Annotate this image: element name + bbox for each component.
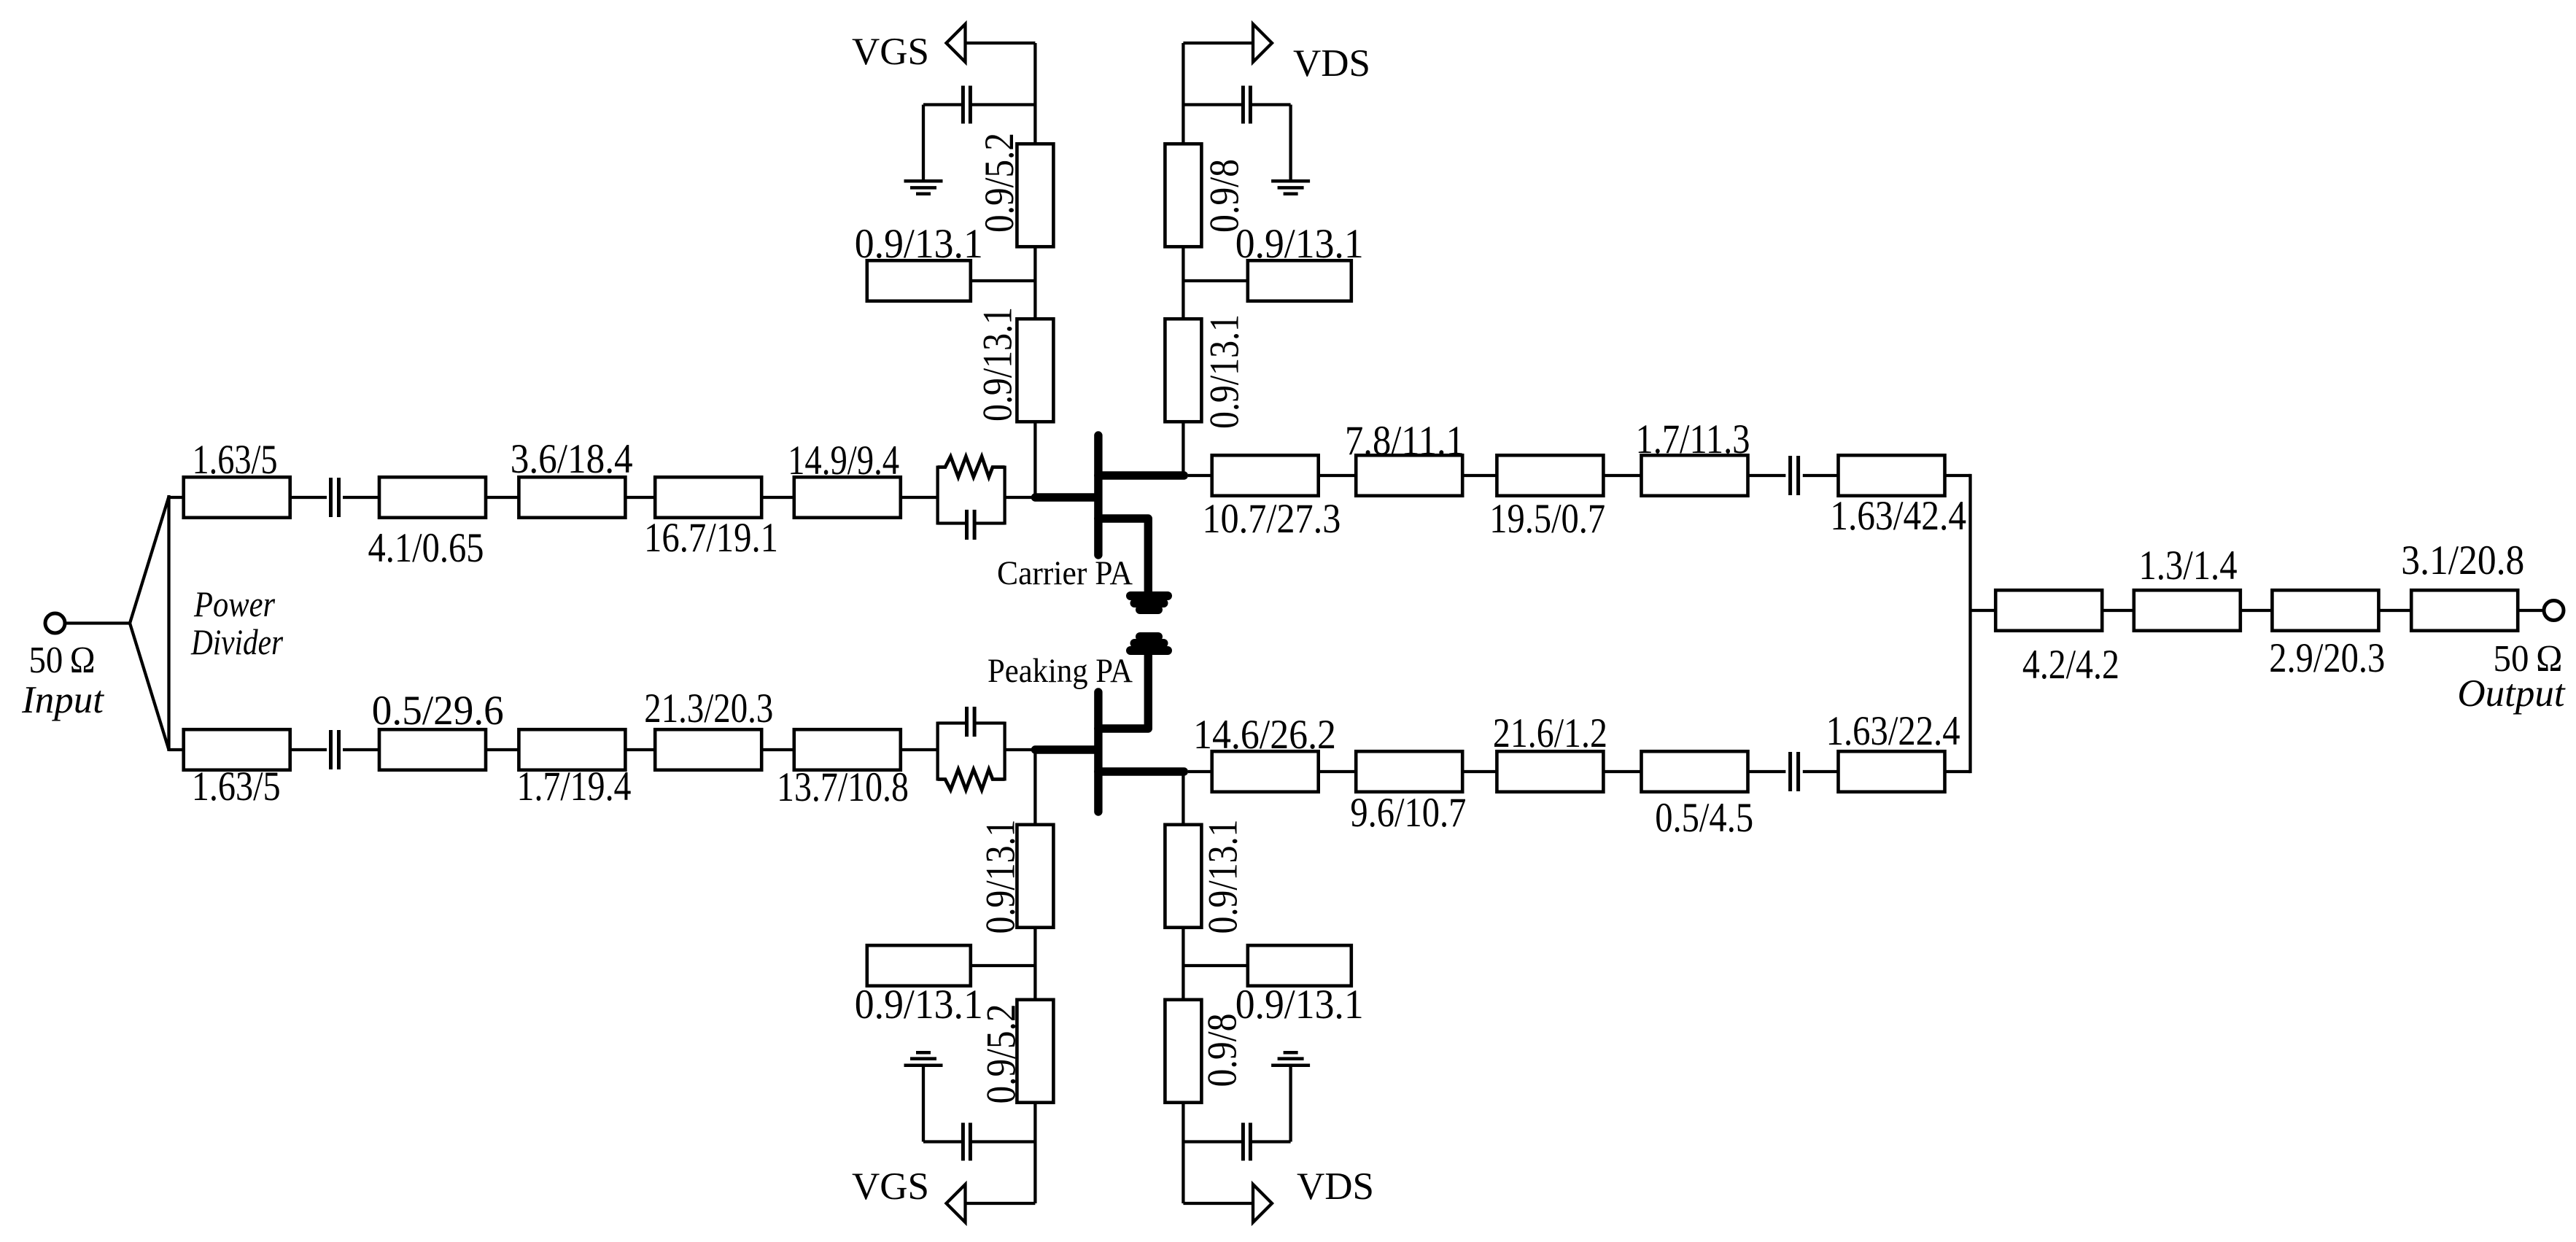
RC tank box left/right (carrier)	[938, 466, 1005, 525]
wire C10 to TL32	[1803, 770, 1839, 773]
transmission line TL23 10.7/27.3	[1212, 455, 1319, 496]
svg-text:0.5/4.5: 0.5/4.5	[1655, 795, 1753, 841]
wire VDS feed column (carrier drain bias)	[1183, 43, 1253, 476]
RC tank box left/right (peaking)	[938, 722, 1005, 781]
transistor Q1 source lead	[1098, 519, 1148, 591]
svg-text:0.9/13.1: 0.9/13.1	[975, 307, 1021, 422]
label 21.6/1.2	[1493, 710, 1607, 756]
transistor Q2 drain lead	[1098, 767, 1184, 775]
svg-text:0.5/29.6: 0.5/29.6	[372, 688, 504, 734]
label 4.2/4.2	[2022, 642, 2119, 688]
wire input to divider	[65, 621, 130, 624]
ground (peaking drain bias)	[1271, 1052, 1310, 1066]
label 0.9/13.1 below stub (peaking gate)	[855, 982, 983, 1028]
wire drain to TL28	[1188, 770, 1212, 773]
capacitor C9 (carrier output DC block)	[1791, 456, 1799, 495]
bold ground (carrier source)	[1130, 596, 1168, 610]
label 2.9/20.3	[2269, 635, 2385, 681]
wire C3 to TL7	[343, 748, 381, 751]
svg-text:Carrier PA: Carrier PA	[997, 554, 1133, 592]
svg-text:1.63/5: 1.63/5	[193, 437, 278, 483]
transmission line TL2 4.1/0.65	[379, 477, 486, 518]
wire TL8 to TL9	[625, 748, 655, 751]
svg-text:2.9/20.3: 2.9/20.3	[2269, 635, 2385, 681]
label Output	[2457, 672, 2566, 715]
label Divider	[190, 621, 283, 662]
transmission line TL8 1.7/19.4	[519, 729, 625, 770]
svg-text:1.63/5: 1.63/5	[192, 764, 281, 810]
transmission line TL28 14.6/26.2	[1212, 751, 1319, 792]
open stub TL12 0.9/13.1 (carrier gate)	[867, 260, 971, 301]
svg-text:3.1/20.8: 3.1/20.8	[2401, 537, 2524, 583]
label 0.5/29.6	[372, 688, 504, 734]
capacitor C3 (peaking input DC block)	[331, 730, 339, 769]
wire tank to gate (peaking)	[1005, 748, 1036, 751]
svg-text:13.7/10.8: 13.7/10.8	[777, 764, 909, 810]
label Peaking PA	[988, 652, 1133, 690]
transistor Q2 Peaking PA gate bar	[1035, 745, 1097, 753]
label 14.6/26.2	[1193, 712, 1336, 758]
port arrow VDS (carrier)	[1253, 24, 1272, 62]
svg-text:1.63/22.4: 1.63/22.4	[1826, 708, 1960, 754]
label VDS (peaking)	[1297, 1165, 1374, 1208]
wire VDS feed column (peaking drain bias)	[1183, 772, 1253, 1203]
label VGS (peaking)	[852, 1165, 929, 1208]
transmission line TL7 0.5/29.6	[379, 729, 486, 770]
capacitor C8 (peaking drain bypass)	[1183, 1067, 1290, 1161]
label 0.9/13.1 rotated (peaking gate)	[978, 820, 1024, 934]
port arrow VGS (carrier)	[947, 24, 966, 62]
svg-text:0.9/13.1: 0.9/13.1	[855, 982, 983, 1028]
ground (carrier drain bias)	[1271, 181, 1310, 193]
label 0.9/8 (peaking drain)	[1200, 1014, 1246, 1087]
wire divider to TL1	[169, 496, 185, 499]
label 13.7/10.8	[777, 764, 909, 810]
label 16.7/19.1	[644, 515, 778, 561]
label 1.3/1.4	[2139, 543, 2238, 589]
label 7.8/11.1	[1345, 418, 1464, 464]
svg-text:0.9/5.2: 0.9/5.2	[979, 1004, 1025, 1104]
node combiner vertical wire	[1968, 474, 1971, 773]
svg-text:50 Ω: 50 Ω	[29, 640, 96, 681]
label 50 Ohm output	[2494, 638, 2563, 680]
open stub TL18 0.9/13.1 (peaking gate)	[867, 945, 971, 986]
stub TL22 0.9/8 (peaking drain feed)	[1165, 1000, 1201, 1103]
bold ground (peaking source)	[1130, 637, 1168, 651]
wire TL31 to C10	[1748, 770, 1786, 773]
label 0.9/13.1 rotated (peaking drain)	[1200, 820, 1246, 934]
transmission line TL10 13.7/10.8	[794, 729, 901, 770]
stub TL13 0.9/13.1 (carrier gate feed lower)	[1017, 319, 1053, 422]
wire TL25 to TL26	[1603, 474, 1641, 477]
svg-text:VGS: VGS	[852, 31, 929, 73]
label 1.63/22.4	[1826, 708, 1960, 754]
wire divider to TL6	[169, 748, 185, 751]
wire TL34 to TL35	[2241, 609, 2273, 612]
label 0.9/5.2 (carrier gate)	[977, 133, 1023, 233]
wire VGS feed column (peaking gate bias)	[966, 750, 1036, 1203]
capacitor C6 (carrier drain bypass)	[1183, 86, 1290, 180]
label VGS (carrier)	[852, 31, 929, 73]
transmission line TL33 4.2/4.2	[1995, 590, 2102, 631]
svg-text:1.7/19.4: 1.7/19.4	[517, 764, 632, 810]
label 21.3/20.3	[644, 686, 773, 731]
transmission line TL25 19.5/0.7	[1497, 455, 1603, 496]
svg-text:16.7/19.1: 16.7/19.1	[644, 515, 778, 561]
transmission line TL4 16.7/19.1	[655, 477, 761, 518]
label 9.6/10.7	[1350, 790, 1466, 836]
label 1.63/5 (carrier)	[193, 437, 278, 483]
stub TL20 0.9/13.1 (peaking drain feed upper)	[1165, 825, 1201, 928]
svg-text:0.9/13.1: 0.9/13.1	[1235, 221, 1364, 267]
open stub TL21 0.9/13.1 (peaking drain)	[1248, 945, 1351, 986]
transistor Q1 Carrier PA gate bar	[1035, 493, 1097, 501]
capacitor C4 (peaking stab, top of tank)	[938, 707, 1005, 737]
wire TL9 to TL10	[761, 748, 794, 751]
stub TL17 0.9/13.1 (peaking gate feed upper)	[1017, 825, 1053, 928]
svg-text:0.9/13.1: 0.9/13.1	[1200, 820, 1246, 934]
transmission line TL5 14.9/9.4	[794, 477, 901, 518]
label 0.9/13.1 rotated (carrier drain)	[1202, 314, 1248, 429]
wire TL28 to TL29	[1319, 770, 1357, 773]
svg-text:1.7/11.3: 1.7/11.3	[1636, 416, 1750, 462]
label 4.1/0.65	[368, 525, 484, 571]
wire TL5 to RC tank (carrier)	[901, 496, 938, 499]
svg-text:19.5/0.7: 19.5/0.7	[1489, 496, 1605, 542]
transmission line TL27 1.63/42.4	[1839, 455, 1945, 496]
capacitor C5 (carrier gate bypass)	[923, 86, 1035, 180]
transmission line TL9 21.3/20.3	[655, 729, 761, 770]
label 14.9/9.4	[788, 438, 899, 484]
wire TL6 to C3	[290, 748, 327, 751]
transmission line TL6 1.63/5 (peaking input)	[184, 729, 290, 770]
transmission line TL24 7.8/11.1	[1356, 455, 1462, 496]
svg-text:14.9/9.4: 14.9/9.4	[788, 438, 899, 484]
capacitor C2 (carrier stab, bottom of tank)	[938, 510, 1005, 540]
label 10.7/27.3	[1202, 496, 1341, 542]
svg-text:10.7/27.3: 10.7/27.3	[1202, 496, 1341, 542]
transmission line TL1 1.63/5 (carrier input)	[184, 477, 290, 518]
label 1.63/42.4	[1830, 493, 1966, 539]
capacitor C10 (peaking output DC block)	[1791, 752, 1799, 791]
svg-text:1.63/42.4: 1.63/42.4	[1830, 493, 1966, 539]
transmission line TL3 3.6/18.4	[519, 477, 625, 518]
power divider	[130, 495, 169, 751]
open stub TL15 0.9/13.1 (carrier drain)	[1248, 260, 1351, 301]
transmission line TL34 1.3/1.4	[2134, 590, 2241, 631]
resistor R1 (carrier stab, top of tank)	[938, 457, 1005, 477]
wire stub junction (carrier drain)	[1183, 279, 1247, 282]
output port 50-ohm terminal	[2544, 601, 2564, 621]
svg-text:0.9/13.1: 0.9/13.1	[855, 221, 983, 267]
wire C1 to TL2	[343, 496, 381, 499]
transistor Q1 channel bar	[1094, 435, 1102, 555]
wire TL26 to C9	[1748, 474, 1786, 477]
svg-text:Output: Output	[2457, 672, 2566, 715]
svg-text:VDS: VDS	[1293, 42, 1370, 85]
svg-text:3.6/18.4: 3.6/18.4	[511, 436, 633, 482]
wire drain to TL23	[1188, 474, 1212, 477]
ground (carrier gate bias)	[904, 181, 943, 193]
svg-text:0.9/13.1: 0.9/13.1	[978, 820, 1024, 934]
wire TL10 to RC tank (peaking)	[901, 748, 938, 751]
wire TL1 to C1	[290, 496, 327, 499]
label Carrier PA	[997, 554, 1133, 592]
wire TL7 to TL8	[486, 748, 519, 751]
svg-text:0.9/13.1: 0.9/13.1	[1235, 982, 1364, 1028]
svg-text:9.6/10.7: 9.6/10.7	[1350, 790, 1466, 836]
wire TL24 to TL25	[1462, 474, 1497, 477]
transmission line TL32 1.63/22.4	[1839, 751, 1945, 792]
label 0.9/13.1 above stub (carrier gate)	[855, 221, 983, 267]
svg-text:21.3/20.3: 21.3/20.3	[644, 686, 773, 731]
transmission line TL30 21.6/1.2	[1497, 751, 1603, 792]
svg-text:VDS: VDS	[1297, 1165, 1374, 1208]
wire stub junction (peaking drain)	[1183, 964, 1247, 967]
transmission line TL36 3.1/20.8	[2411, 590, 2518, 631]
wire TL4 to TL5	[761, 496, 794, 499]
port arrow VDS (peaking)	[1253, 1184, 1272, 1222]
wire tank to gate (carrier)	[1005, 496, 1036, 499]
capacitor C7 (peaking gate bypass)	[923, 1067, 1035, 1161]
port arrow VGS (peaking)	[947, 1184, 966, 1222]
svg-text:0.9/8: 0.9/8	[1200, 1014, 1246, 1087]
svg-text:4.1/0.65: 4.1/0.65	[368, 525, 484, 571]
label 0.9/8 (carrier drain)	[1202, 159, 1248, 233]
wire TL2 to TL3	[486, 496, 519, 499]
wire VGS feed column (carrier gate bias)	[966, 43, 1036, 497]
resistor R2 (peaking stab, bottom of tank)	[938, 769, 1005, 790]
label Power	[193, 583, 275, 624]
svg-text:Power: Power	[193, 583, 275, 624]
wire TL33 to TL34	[2102, 609, 2134, 612]
label 0.9/13.1 below stub (peaking drain)	[1235, 982, 1364, 1028]
wire TL29 to TL30	[1462, 770, 1497, 773]
svg-text:14.6/26.2: 14.6/26.2	[1193, 712, 1336, 758]
wire stub junction (peaking gate)	[971, 964, 1036, 967]
label 1.7/19.4	[517, 764, 632, 810]
svg-text:Input: Input	[21, 679, 104, 721]
wire TL35 to TL36	[2378, 609, 2411, 612]
transistor Q2 source lead	[1098, 655, 1148, 729]
label Input	[21, 679, 104, 721]
stub TL14 0.9/8 (carrier drain feed)	[1165, 144, 1201, 247]
stub TL16 0.9/13.1 (carrier drain feed lower)	[1165, 319, 1201, 422]
ground (peaking gate bias)	[904, 1052, 943, 1066]
label 19.5/0.7	[1489, 496, 1605, 542]
transmission line TL35 2.9/20.3	[2272, 590, 2378, 631]
svg-text:Divider: Divider	[190, 621, 283, 662]
transistor Q1 drain lead	[1098, 471, 1184, 479]
label VDS (carrier)	[1293, 42, 1370, 85]
transmission line TL31 0.5/4.5	[1642, 751, 1748, 792]
label 0.9/5.2 (peaking gate)	[979, 1004, 1025, 1104]
label 3.1/20.8	[2401, 537, 2524, 583]
label 1.63/5 (peaking)	[192, 764, 281, 810]
label 0.5/4.5	[1655, 795, 1753, 841]
wire combiner to TL33	[1971, 609, 1996, 612]
wire C9 to TL27	[1803, 474, 1839, 477]
svg-text:1.3/1.4: 1.3/1.4	[2139, 543, 2238, 589]
label 0.9/13.1 above stub (carrier drain)	[1235, 221, 1364, 267]
svg-text:VGS: VGS	[852, 1165, 929, 1208]
wire TL36 to output port	[2518, 609, 2544, 612]
svg-text:21.6/1.2: 21.6/1.2	[1493, 710, 1607, 756]
stub TL19 0.9/5.2 (peaking gate feed)	[1017, 1000, 1053, 1103]
transmission line TL26 1.7/11.3	[1642, 455, 1748, 496]
svg-text:0.9/13.1: 0.9/13.1	[1202, 314, 1248, 429]
capacitor C1 (carrier input DC block)	[331, 478, 339, 517]
label 0.9/13.1 rotated (carrier gate)	[975, 307, 1021, 422]
label 1.7/11.3	[1636, 416, 1750, 462]
label 50 Ohm input	[29, 640, 96, 681]
transmission line TL29 9.6/10.7	[1356, 751, 1462, 792]
svg-text:Peaking PA: Peaking PA	[988, 652, 1133, 690]
svg-text:7.8/11.1: 7.8/11.1	[1345, 418, 1464, 464]
svg-text:0.9/5.2: 0.9/5.2	[977, 133, 1023, 233]
svg-text:4.2/4.2: 4.2/4.2	[2022, 642, 2119, 688]
wire stub junction (carrier gate)	[971, 279, 1036, 282]
wire TL3 to TL4	[625, 496, 655, 499]
input port 50-ohm terminal	[45, 613, 65, 633]
wire TL30 to TL31	[1603, 770, 1641, 773]
wire TL23 to TL24	[1319, 474, 1357, 477]
transistor Q2 channel bar	[1094, 692, 1102, 812]
wire TL27 to combiner node	[1945, 474, 1971, 477]
stub TL11 0.9/5.2 (carrier gate feed)	[1017, 144, 1053, 247]
wire TL32 to combiner node	[1945, 770, 1971, 773]
label 3.6/18.4	[511, 436, 633, 482]
